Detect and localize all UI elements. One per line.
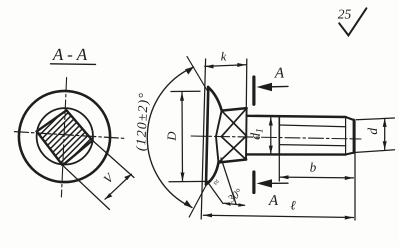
underline of A-A xyxy=(51,63,96,66)
svg-text:b: b xyxy=(310,160,317,175)
neck upper X diagonal 2 xyxy=(222,108,247,136)
section arrow top xyxy=(262,85,288,88)
extension line: head face (for k, D, l dims) xyxy=(201,59,205,219)
arrow D bottom xyxy=(181,173,185,182)
dimension k line xyxy=(205,65,246,67)
node: head outer circle xyxy=(19,91,110,182)
arrow d top xyxy=(383,118,387,127)
chamfer start line xyxy=(345,117,347,154)
bolt end line xyxy=(353,120,355,153)
arrow D top xyxy=(180,92,184,101)
cone generatrix extension bottom xyxy=(189,186,206,218)
cone-flat intersection lower arm xyxy=(216,137,219,163)
arrow arc bottom xyxy=(184,200,193,208)
dimension d extension top xyxy=(356,118,395,120)
chamfer bottom edge xyxy=(346,153,354,155)
dimension D extension top xyxy=(171,90,200,92)
chamfer top edge xyxy=(346,117,354,120)
extension line k right xyxy=(245,59,248,108)
30 deg reference line xyxy=(221,158,236,204)
neck lower X diagonal 1 xyxy=(222,137,247,160)
neck upper X diagonal 1 xyxy=(222,111,247,136)
neck right edge xyxy=(245,108,248,159)
extension line: bolt end (for b, l, d) xyxy=(354,121,356,220)
section label A-A xyxy=(52,45,88,64)
dimension d extension bottom xyxy=(356,150,395,153)
svg-text:d1: d1 xyxy=(248,128,266,140)
label A bottom xyxy=(268,193,279,209)
label k xyxy=(221,50,227,64)
svg-text:A - A: A - A xyxy=(52,45,88,64)
extension line: thread start (for b) xyxy=(278,155,280,181)
svg-text:d: d xyxy=(365,128,380,135)
dimension d line xyxy=(384,119,386,150)
wire: bolt axis centerline xyxy=(191,136,361,139)
arrow V lower xyxy=(105,193,112,199)
label d1 xyxy=(248,128,266,140)
arrow d1 bottom xyxy=(269,146,273,155)
dimension V extension line 2 xyxy=(92,140,134,177)
section arrow bottom xyxy=(262,182,288,184)
surface finish mark 25 xyxy=(339,8,366,35)
arrow b right xyxy=(345,176,354,180)
arrow arc top xyxy=(185,67,194,75)
neck bottom edge xyxy=(219,160,247,163)
30 deg generatrix stub xyxy=(209,184,223,204)
arrow V upper xyxy=(124,174,131,180)
cone-flat intersection upper arm xyxy=(216,111,222,137)
cone generatrix extension top xyxy=(187,57,208,92)
head face thick outline xyxy=(206,87,208,185)
label (120±2)° xyxy=(133,92,151,152)
30 deg double arrow xyxy=(224,203,245,205)
svg-text:25: 25 xyxy=(338,7,352,22)
arrow k left xyxy=(205,65,214,69)
cone silhouette lower curve xyxy=(206,163,219,185)
neck lower X diagonal 2 xyxy=(219,136,247,163)
arrow b left xyxy=(280,175,289,179)
svg-text:A: A xyxy=(274,65,285,81)
thread minor bottom line xyxy=(279,145,345,146)
svg-text:D: D xyxy=(165,131,179,142)
node: square neck section (hatched) xyxy=(0,100,130,175)
label A top xyxy=(274,65,285,81)
svg-text:A: A xyxy=(268,193,279,209)
arrow d bottom xyxy=(383,141,387,150)
label D xyxy=(165,131,179,142)
shank top outline xyxy=(247,116,346,117)
shank bottom outline xyxy=(246,153,345,156)
svg-text:≈: ≈ xyxy=(211,177,223,188)
thread minor top line xyxy=(279,125,345,127)
label d xyxy=(365,128,380,135)
dimension D extension bottom xyxy=(169,180,209,182)
dimension d1 line xyxy=(270,118,272,154)
svg-text:V: V xyxy=(101,170,117,186)
svg-text:ℓ: ℓ xyxy=(290,198,296,213)
neck top edge xyxy=(222,108,247,111)
arrow d1 top xyxy=(269,117,273,126)
dimension V extension line 1 xyxy=(63,165,110,209)
dimension V line xyxy=(105,174,132,199)
wire: horizontal centerline left view xyxy=(15,132,127,139)
label b xyxy=(310,160,317,175)
svg-text:k: k xyxy=(221,50,227,64)
label l xyxy=(290,198,296,213)
arrow k right xyxy=(237,63,246,67)
section plane thick line bottom xyxy=(252,172,255,193)
cone silhouette upper curve xyxy=(208,87,222,111)
section plane thick line top xyxy=(252,77,255,104)
dimension l line xyxy=(203,215,353,217)
arrow l right xyxy=(345,216,354,220)
node: shank inner circle xyxy=(37,108,93,164)
label V xyxy=(101,170,117,186)
label approx 30deg xyxy=(211,177,246,206)
dimension b line xyxy=(280,176,354,179)
thread start line xyxy=(278,117,280,155)
wire: vertical centerline left view xyxy=(61,78,66,198)
svg-text:(120±2)°: (120±2)° xyxy=(133,92,151,152)
arrow l left xyxy=(203,213,212,217)
dimension D line xyxy=(181,93,184,182)
angle arc (120±2)° xyxy=(147,67,193,208)
